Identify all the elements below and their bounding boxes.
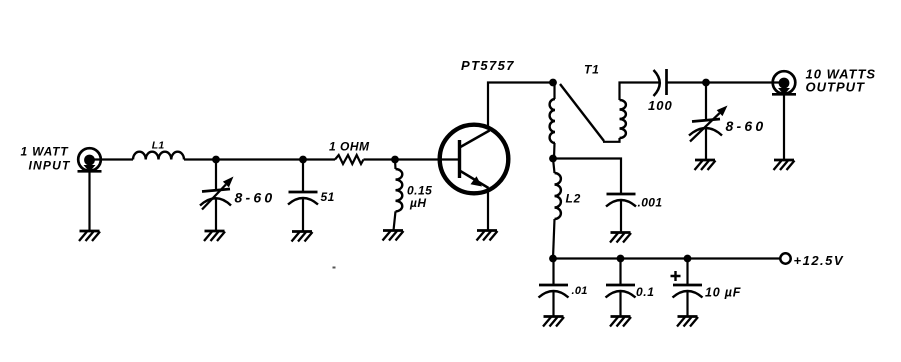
svg-text:51: 51 <box>321 190 335 204</box>
svg-text:1 OHM: 1 OHM <box>329 140 370 154</box>
capacitor C2 51 plates <box>288 192 318 205</box>
wire C5 to ground <box>620 200 622 233</box>
svg-text:OUTPUT: OUTPUT <box>806 79 866 94</box>
ground (under J2) <box>774 160 795 170</box>
wire diagonal to T1 secondary bottom <box>603 138 620 142</box>
svg-text:1 WATT: 1 WATT <box>21 145 70 159</box>
ground (under C6) <box>543 317 564 327</box>
capacitor C8 10 uF plates <box>673 285 703 298</box>
wire T1 secondary top to C3 <box>620 83 661 101</box>
svg-text:T1: T1 <box>584 63 600 77</box>
plus sign of C8 <box>671 271 681 281</box>
node I junction <box>684 255 692 263</box>
node E junction <box>702 79 710 87</box>
wire L1 to node A <box>184 158 216 160</box>
svg-text:8-60: 8-60 <box>726 118 767 134</box>
terminal +12.5V <box>780 253 790 263</box>
ground (under C1) <box>204 231 225 241</box>
ground (under J1) <box>79 231 100 241</box>
capacitor C6 .01 plates <box>539 285 569 298</box>
wire node B to C2 <box>302 160 304 232</box>
wire node F to C5 corner <box>553 159 621 195</box>
wire C3 to node E <box>667 81 706 83</box>
T1 phasing diagonal wire <box>560 84 604 141</box>
wire node I to C8 <box>686 259 688 317</box>
svg-text:+12.5V: +12.5V <box>794 253 845 268</box>
wire L2 to node G <box>553 219 555 259</box>
wire node A to node B <box>216 158 303 160</box>
inductor L2 <box>555 173 561 219</box>
ground (under C5) <box>610 233 631 243</box>
supply rail wire to +12.5V <box>553 257 780 259</box>
wire Q1 emitter to ground <box>487 191 489 231</box>
wire R1 to node C <box>364 158 396 160</box>
label "1 WATT INPUT" <box>21 145 71 173</box>
wire J2 to ground <box>783 95 785 160</box>
ground (under C2) <box>292 232 313 242</box>
svg-text:0.15: 0.15 <box>407 183 432 197</box>
inductor L1 <box>133 152 184 160</box>
capacitor C7 0.1 plates <box>606 285 636 298</box>
label 0.15 uH <box>407 183 432 210</box>
inductor L3 0.15 uH <box>396 169 403 211</box>
svg-text:8-60: 8-60 <box>235 190 276 206</box>
wire node A to C1 <box>215 160 217 232</box>
node H junction <box>617 255 625 263</box>
svg-text:100: 100 <box>648 98 673 113</box>
transistor Q1 PT5757 <box>440 125 509 194</box>
resistor R1 1 OHM <box>335 155 364 164</box>
wire node E to J2 <box>706 81 784 83</box>
wire J1 to ground <box>88 172 90 231</box>
svg-text:PT5757: PT5757 <box>461 58 515 73</box>
label "10 WATTS OUTPUT" <box>806 66 877 94</box>
wire node C to L3 <box>394 160 397 170</box>
svg-text:L2: L2 <box>566 191 582 205</box>
svg-text:INPUT: INPUT <box>29 158 71 172</box>
transformer T1 primary <box>553 83 555 100</box>
wire node F to L2 <box>553 159 555 174</box>
ground (under L3) <box>383 231 404 241</box>
node F junction <box>549 155 557 163</box>
wire L3 to ground <box>394 211 396 230</box>
coax connector J2 (10 WATTS OUTPUT) <box>772 71 796 95</box>
node A junction <box>212 156 220 164</box>
svg-text:.001: .001 <box>638 196 663 210</box>
svg-text:.01: .01 <box>572 285 588 297</box>
svg-text:µH: µH <box>409 196 427 210</box>
wire node H to C7 <box>619 259 621 317</box>
ground (under C7) <box>610 317 631 327</box>
ground (under Q1 emitter) <box>477 231 498 241</box>
node D junction (collector rail) <box>549 79 557 87</box>
ground (under C8) <box>677 317 698 327</box>
coax connector J1 (1 WATT INPUT) <box>78 148 102 172</box>
node B junction <box>299 156 307 164</box>
variable capacitor C4 8-60 <box>689 119 722 136</box>
svg-text:10 µF: 10 µF <box>705 286 741 300</box>
wire T1 primary to node F <box>553 143 556 159</box>
svg-text:0.1: 0.1 <box>636 285 654 299</box>
svg-text:L1: L1 <box>152 139 165 151</box>
wire node E to C4 <box>705 83 707 161</box>
wire node G to C6 <box>552 259 554 317</box>
node G junction <box>549 255 557 263</box>
arrow of C1 <box>202 185 226 210</box>
ground (under C4) <box>695 160 716 170</box>
node C junction <box>391 156 399 164</box>
capacitor C3 100 <box>654 69 667 96</box>
variable capacitor C1 8-60 <box>200 189 231 206</box>
wire node B to R1 <box>303 158 335 160</box>
arrow of C4 <box>690 113 720 141</box>
wire node C to Q1 base <box>395 158 458 160</box>
transformer T1 secondary <box>620 100 626 138</box>
wire J1 to L1 <box>90 158 134 160</box>
wire Q1 collector to top rail <box>488 83 553 128</box>
emitter arrow of Q1 <box>471 176 483 186</box>
stray scan speck <box>333 267 336 269</box>
capacitor C5 .001 plates <box>606 194 636 207</box>
